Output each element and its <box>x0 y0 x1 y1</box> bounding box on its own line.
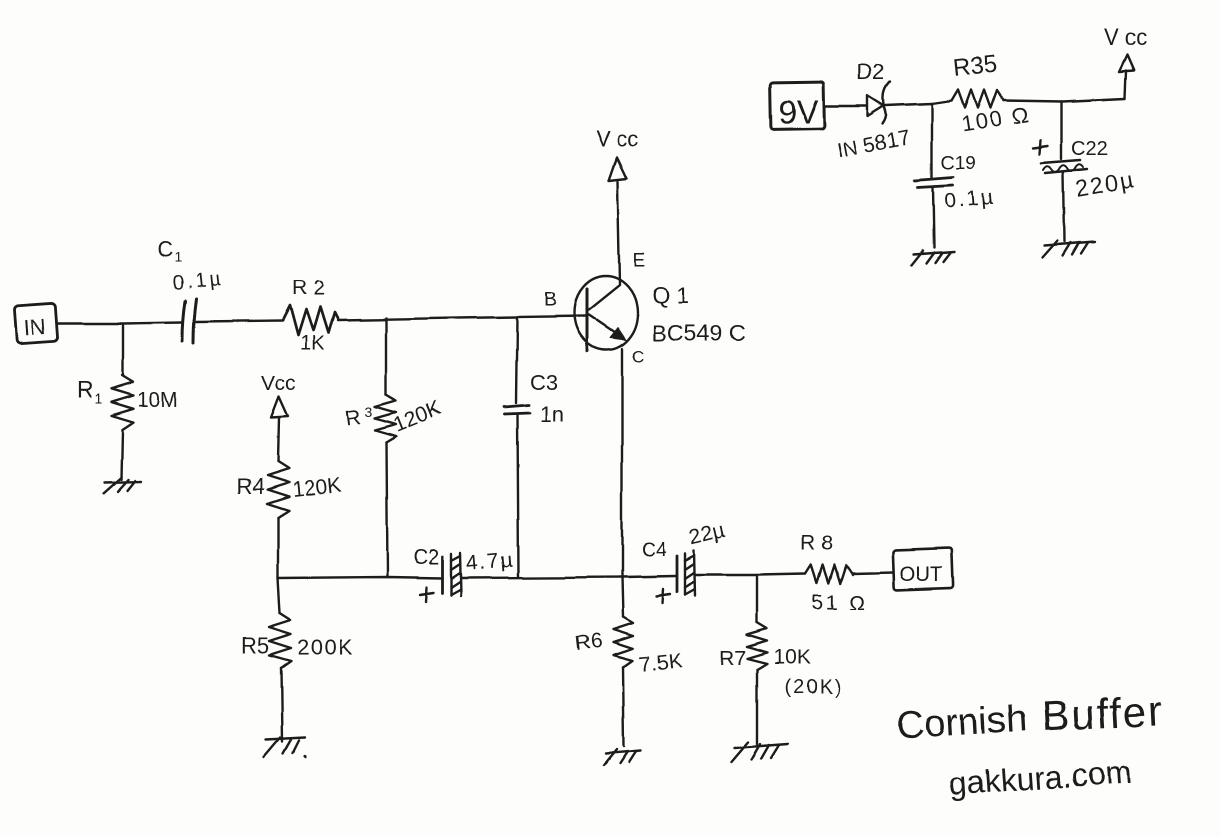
wire R8 to OUT <box>852 572 893 573</box>
svg-text:R4: R4 <box>236 474 264 499</box>
capacitor C2 (electrolytic) <box>413 546 515 601</box>
svg-text:R: R <box>76 377 93 403</box>
svg-text:B: B <box>543 289 556 311</box>
collector wire down <box>622 349 623 617</box>
wire R2 to base <box>337 316 586 320</box>
ground (C22) <box>1042 241 1095 258</box>
svg-text:V cc: V cc <box>1104 25 1147 50</box>
svg-text:R6: R6 <box>574 629 603 655</box>
wire C1 to R2 <box>196 321 283 322</box>
resistor R8 <box>801 532 867 614</box>
svg-text:E: E <box>633 251 646 272</box>
svg-text:R7: R7 <box>719 647 746 670</box>
svg-text:9V: 9V <box>778 93 818 130</box>
IN terminal box <box>15 303 59 344</box>
svg-text:OUT: OUT <box>899 563 944 586</box>
resistor R7 <box>719 575 843 744</box>
svg-text:IN 5817: IN 5817 <box>836 126 913 163</box>
Vcc arrow (Q1) <box>596 126 639 180</box>
bus C2 to C4 <box>462 576 676 578</box>
svg-text:R 2: R 2 <box>292 277 325 300</box>
capacitor C1 <box>157 237 225 343</box>
svg-text:4.7µ: 4.7µ <box>465 548 514 575</box>
svg-text:BC549 C: BC549 C <box>652 320 745 346</box>
wire Vcc arrow to R4 <box>278 418 279 462</box>
9V battery box <box>770 82 825 130</box>
resistor R5 <box>241 578 354 742</box>
svg-text:Buffer: Buffer <box>1040 687 1166 740</box>
svg-text:Vcc: Vcc <box>261 372 296 395</box>
svg-text:R35: R35 <box>952 51 999 82</box>
capacitor C19 <box>915 104 997 248</box>
capacitor C4 (electrolytic) <box>641 519 727 603</box>
svg-text:1: 1 <box>94 391 102 407</box>
resistor R35 <box>952 51 1032 137</box>
emitter wire to Vcc <box>618 181 620 284</box>
node input / wire to R1 <box>122 325 124 376</box>
svg-text:51 Ω: 51 Ω <box>812 591 867 614</box>
bus C4 to R8 <box>695 574 806 575</box>
svg-text:22µ: 22µ <box>687 519 727 550</box>
svg-text:1K: 1K <box>300 333 325 355</box>
lower bus left <box>278 577 443 578</box>
svg-text:C3: C3 <box>530 370 558 395</box>
svg-text:gakkura.com: gakkura.com <box>948 753 1133 802</box>
ground (R6) <box>604 749 641 765</box>
resistor R3 <box>344 318 444 577</box>
svg-text:120K: 120K <box>390 397 444 437</box>
svg-text:R5: R5 <box>241 633 269 658</box>
transistor Q1 emitter diagonal <box>589 285 620 310</box>
transistor Q1 circle <box>574 276 638 350</box>
svg-text:(20K): (20K) <box>784 677 843 699</box>
svg-text:R 8: R 8 <box>801 532 834 555</box>
Vcc arrow (bias) <box>271 397 288 418</box>
ground (R5) <box>264 738 306 757</box>
svg-text:1n: 1n <box>540 402 564 427</box>
svg-text:C4: C4 <box>641 539 667 561</box>
resistor R1 <box>76 376 178 479</box>
wire R35 to Vcc corner <box>1004 98 1125 101</box>
svg-text:200K: 200K <box>297 635 354 660</box>
svg-text:D2: D2 <box>857 60 885 85</box>
svg-text:10K: 10K <box>773 646 810 669</box>
wire D2 to R35 <box>886 101 952 106</box>
svg-text:120K: 120K <box>291 474 342 502</box>
resistor R4 <box>236 462 342 578</box>
ground (R1) <box>103 477 141 493</box>
wire 9V to D2 <box>824 105 868 107</box>
svg-text:R: R <box>344 405 362 430</box>
resistor R6 <box>574 617 683 746</box>
transistor Q1 collector diagonal with arrow <box>589 315 620 336</box>
ground (R7) <box>731 742 788 762</box>
resistor R2 <box>283 277 337 355</box>
svg-text:IN: IN <box>23 313 47 339</box>
svg-text:0.1µ: 0.1µ <box>171 268 224 295</box>
svg-text:220µ: 220µ <box>1073 166 1136 202</box>
ground (C19) <box>911 251 954 266</box>
capacitor C22 (electrolytic) <box>1033 101 1137 242</box>
svg-text:C: C <box>157 237 173 262</box>
svg-text:100 Ω: 100 Ω <box>960 101 1032 137</box>
svg-text:C2: C2 <box>413 546 440 569</box>
OUT terminal box <box>892 548 953 590</box>
svg-text:V cc: V cc <box>596 126 639 151</box>
capacitor C3 <box>504 317 564 577</box>
svg-text:C22: C22 <box>1071 138 1108 160</box>
svg-text:1: 1 <box>174 249 182 265</box>
svg-text:Cornish: Cornish <box>895 698 1028 747</box>
svg-text:C: C <box>632 347 644 366</box>
transistor Q1 base bar <box>586 289 589 351</box>
diode D2 <box>836 60 913 163</box>
svg-text:C19: C19 <box>941 153 976 174</box>
svg-text:Q 1: Q 1 <box>652 282 689 308</box>
svg-text:0.1µ: 0.1µ <box>943 186 996 213</box>
wire IN to C1 <box>57 322 182 323</box>
svg-text:10M: 10M <box>137 389 178 412</box>
Vcc riser and arrow (power) <box>1104 25 1147 98</box>
svg-text:3: 3 <box>365 403 373 419</box>
svg-text:7.5K: 7.5K <box>638 650 683 677</box>
